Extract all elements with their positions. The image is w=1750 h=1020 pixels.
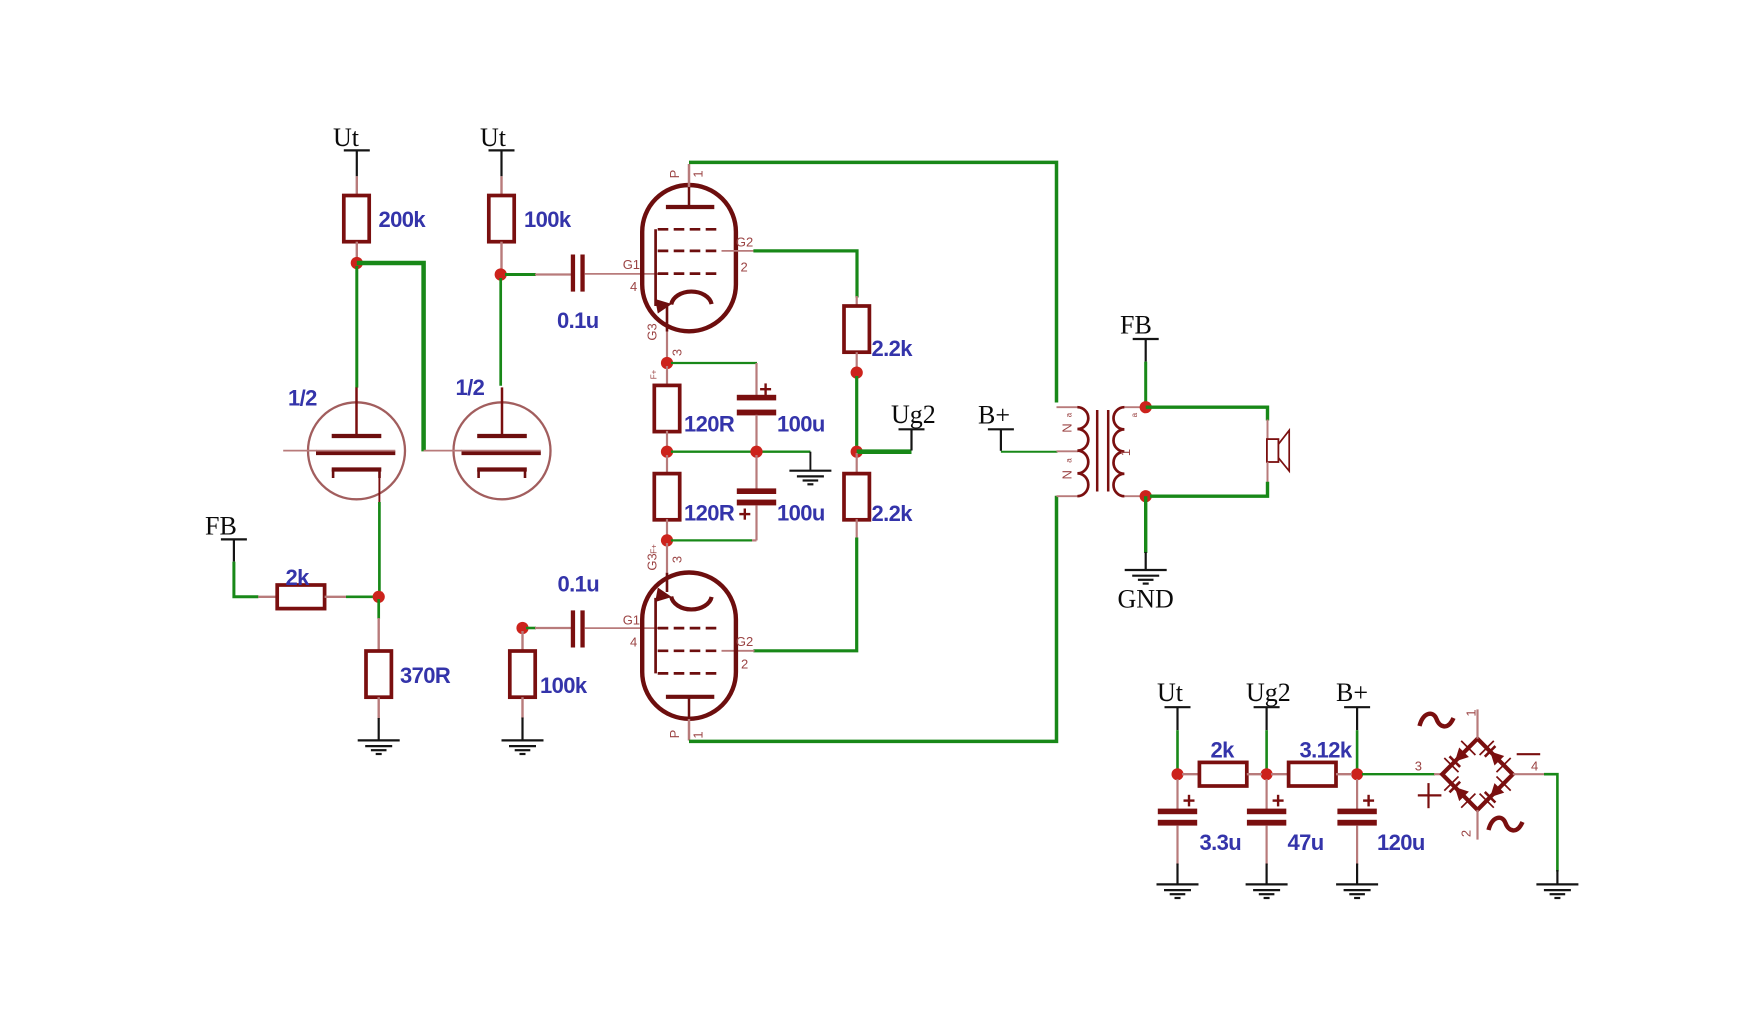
capacitor 3.3u (electrolytic): [1158, 795, 1197, 826]
triode V1a cathode: [332, 470, 382, 479]
pin lead R100k to node: [500, 242, 502, 271]
pin lead speaker top: [1267, 420, 1269, 440]
junction secondary bottom: [1140, 490, 1152, 502]
svg-text:47u: 47u: [1288, 830, 1324, 855]
svg-text:2: 2: [741, 260, 748, 275]
pin lead R370R to ground: [378, 697, 380, 719]
capacitor 47u (electrolytic): [1247, 795, 1286, 826]
bridge rectifier B1 diamond: [1442, 739, 1513, 810]
bridge minus mark: [1517, 753, 1541, 755]
pin lead into C5 (3.3u): [1176, 779, 1178, 810]
bridge diode D3 (top-right): [1480, 741, 1511, 772]
triode V1b grid lead: [424, 450, 462, 452]
svg-text:1: 1: [1118, 449, 1133, 456]
wire secondary bottom to ground: [1144, 496, 1147, 553]
svg-text:100u: 100u: [777, 412, 825, 437]
resistor 3.12k: [1289, 762, 1336, 786]
svg-text:370R: 370R: [400, 663, 451, 688]
pin lead R2k right: [1247, 773, 1262, 775]
wire B+ rail to bridge: [1362, 773, 1435, 775]
supply symbol B+ (middle): [978, 401, 1014, 451]
triode V1a envelope: [308, 402, 405, 499]
junction U2 cathode node: [661, 534, 673, 546]
wire speaker to secondary bottom: [1150, 482, 1268, 496]
supply symbol B+ (psu): [1336, 678, 1370, 730]
svg-text:P: P: [667, 170, 682, 179]
resistor 200k: [344, 196, 369, 242]
transformer T1 core: [1097, 410, 1108, 492]
wire B+ supply stem (psu): [1356, 730, 1359, 769]
triode V1b envelope: [454, 402, 551, 499]
bridge diode D4 (bottom-right): [1480, 777, 1511, 808]
triode V1a grid: [316, 451, 395, 455]
pentode U1 plate lead: [688, 164, 691, 208]
svg-text:GND: GND: [1118, 585, 1174, 614]
svg-text:G3: G3: [645, 323, 660, 340]
wire secondary top to speaker: [1146, 407, 1268, 420]
pin lead into R370R: [378, 618, 380, 652]
capacitor 100u (electrolytic): [737, 383, 776, 415]
pin lead R2k right: [325, 596, 347, 598]
pin lead bridge pin 3: [1434, 773, 1443, 775]
svg-text:G2: G2: [736, 235, 753, 250]
supply symbol FB (left): [205, 512, 247, 562]
supply symbol Ug2 (psu): [1246, 678, 1291, 730]
supply symbol FB (transformer): [1120, 311, 1159, 362]
pentode U1 suppressor strap: [654, 229, 657, 306]
svg-text:G3: G3: [645, 553, 660, 570]
wire Ug2 supply stem (psu): [1265, 730, 1268, 769]
resistor 370R: [366, 651, 391, 697]
pentode U2 suppressor strap: [654, 598, 657, 674]
supply symbol Ut (psu): [1157, 678, 1191, 730]
svg-text:F+: F+: [650, 544, 659, 554]
resistor 120R: [654, 474, 679, 520]
pin lead Ut to R200k: [356, 176, 358, 196]
svg-text:a: a: [1130, 412, 1139, 417]
supply symbol Ug2 (middle): [891, 400, 936, 451]
svg-text:Ut: Ut: [1157, 678, 1184, 707]
svg-text:4: 4: [630, 635, 637, 650]
pin lead 2.2k to node: [856, 352, 858, 369]
svg-text:4: 4: [630, 279, 637, 294]
pin lead lower R120R to node: [666, 519, 668, 537]
pin lead C2 top: [755, 363, 757, 396]
triode V1a cathode lead: [378, 478, 380, 503]
svg-text:B+: B+: [1336, 678, 1368, 707]
resistor 100k: [510, 651, 535, 697]
resistor 120R: [654, 385, 679, 431]
pin lead into C1: [535, 273, 571, 275]
junction Ug2 node: [851, 446, 863, 458]
svg-text:120R: 120R: [684, 501, 735, 526]
pin lead R100k to ground: [521, 697, 523, 718]
wire FB to R2k: [234, 562, 259, 597]
svg-text:a: a: [1065, 412, 1074, 417]
svg-text:Ut: Ut: [480, 123, 507, 152]
pin lead node to R3.12k left: [1271, 773, 1289, 775]
pin lead C2 bottom: [755, 415, 757, 449]
pentode U1 grid dashes: [658, 229, 722, 273]
junction B+ rail (psu): [1351, 768, 1363, 780]
svg-text:B+: B+: [978, 401, 1010, 430]
svg-text:a: a: [1065, 458, 1074, 463]
pin lead U2 screen G2: [722, 650, 755, 652]
pin lead into C7 (120u): [1356, 779, 1358, 810]
svg-text:N: N: [1060, 423, 1075, 432]
transformer T1 secondary winding: [1114, 407, 1142, 496]
triode V1a plate: [332, 387, 382, 436]
pin lead node to R100k (grid leak): [521, 631, 523, 653]
pentode U1 envelope: [642, 185, 736, 331]
triode V1a grid lead: [283, 450, 316, 452]
triode V1b plate: [477, 387, 527, 436]
pentode U2 envelope: [642, 573, 736, 719]
pin lead R120R to mid node: [666, 431, 668, 448]
pin lead into upper 2.2k: [856, 296, 858, 307]
pin lead C3 top: [755, 455, 757, 489]
pentode U2 cathode: [655, 588, 711, 610]
pin lead R2k left: [258, 596, 278, 598]
wire cathode node 2 to C3: [671, 539, 752, 541]
wire mid node to ground: [671, 451, 810, 453]
wire node to triode V1a plate: [355, 266, 358, 388]
svg-text:2: 2: [1459, 830, 1474, 837]
svg-text:G1: G1: [623, 613, 640, 628]
svg-text:2k: 2k: [1211, 738, 1236, 763]
svg-text:120u: 120u: [1377, 830, 1425, 855]
svg-text:Ug2: Ug2: [1246, 678, 1291, 707]
resistor 2k: [1199, 762, 1246, 786]
wire stub node to C4: [526, 627, 536, 630]
supply symbol Ut (second): [480, 123, 515, 176]
svg-text:1/2: 1/2: [288, 386, 317, 411]
svg-text:3: 3: [669, 349, 684, 356]
wire FB to secondary top: [1144, 362, 1147, 403]
capacitor C3 100u (lower, electrolytic): [737, 488, 776, 519]
svg-text:2.2k: 2.2k: [872, 501, 914, 526]
resistor 2.2k: [844, 474, 869, 520]
capacitor C4 0.1u (coupling, bottom): [571, 610, 585, 647]
svg-text:100u: 100u: [777, 501, 825, 526]
wire node to R370R: [377, 599, 380, 619]
pin lead U1 screen G2: [722, 250, 755, 252]
ground below R100k: [502, 718, 544, 755]
transformer T1 primary winding: [1057, 407, 1089, 496]
pin lead into R120R (lower): [666, 455, 668, 475]
pin lead C5 to ground: [1176, 825, 1178, 865]
svg-text:1/2: 1/2: [456, 375, 485, 400]
junction mid node at C2: [750, 446, 762, 458]
svg-text:Ut: Ut: [333, 123, 360, 152]
pentode U2 cathode/G3 pin lead: [666, 543, 668, 573]
wire Ut supply stem (psu): [1176, 730, 1179, 769]
wire cathode node to C2: [671, 362, 757, 364]
resistor 2k: [277, 585, 324, 609]
wire U1 G2 to R2.2k (upper): [753, 251, 857, 298]
bridge AC squiggle (top): [1420, 714, 1454, 727]
junction U1 cathode node: [661, 357, 673, 369]
svg-text:2: 2: [741, 657, 748, 672]
wire U1 plate to output transformer primary top: [689, 162, 1057, 402]
wire node to coupling cap C1: [505, 273, 536, 276]
wire B+ to transformer center tap: [1001, 451, 1058, 453]
pin lead bridge pin 4: [1513, 773, 1545, 775]
pin lead R200k to node: [356, 242, 358, 259]
svg-text:0.1u: 0.1u: [557, 308, 599, 333]
junction node at V1b plate / coupling cap: [495, 268, 507, 280]
pin lead speaker bottom: [1267, 462, 1269, 483]
svg-text:1: 1: [691, 170, 706, 177]
junction node at C4: [516, 622, 528, 634]
ground GND (transformer): [1125, 552, 1167, 584]
ground below C5: [1157, 864, 1199, 899]
bridge diode D1 (top-left): [1444, 741, 1475, 772]
svg-text:F+: F+: [650, 369, 659, 379]
pin lead C6 to ground: [1265, 825, 1267, 865]
speaker LS1: [1267, 430, 1289, 471]
svg-text:P: P: [667, 730, 682, 739]
svg-text:200k: 200k: [379, 207, 427, 232]
pin lead C3 bottom: [755, 505, 757, 540]
wire lower 2.2k to U2 screen G2: [753, 538, 856, 651]
ground bridge output: [1536, 870, 1578, 898]
svg-text:2.2k: 2.2k: [872, 336, 914, 361]
capacitor C1 0.1u (coupling, top): [571, 255, 585, 292]
svg-text:4: 4: [1531, 759, 1538, 774]
ground below C7: [1336, 864, 1378, 899]
wire bridge output to ground: [1544, 774, 1557, 871]
svg-text:100k: 100k: [540, 673, 588, 698]
pentode U2 grid dashes: [658, 628, 722, 673]
pentode U2 plate: [666, 695, 714, 699]
pin lead C4 to pentode U2 grid G1: [585, 627, 660, 629]
bridge pin 1 lead: [1476, 709, 1478, 738]
svg-text:1: 1: [691, 731, 706, 738]
svg-text:0.1u: 0.1u: [558, 572, 600, 597]
junction feedback node: [373, 591, 385, 603]
pin lead center tap: [1057, 450, 1079, 452]
svg-text:3.12k: 3.12k: [1300, 738, 1353, 763]
bridge AC squiggle (bottom): [1489, 818, 1523, 831]
pin lead into C6 (47u): [1265, 779, 1267, 810]
pin lead node to R2k (psu) left: [1182, 773, 1200, 775]
pin lead Ut to R100k: [500, 176, 502, 196]
junction mid node left: [661, 446, 673, 458]
svg-text:N: N: [1060, 470, 1075, 479]
pentode U1 cathode: [655, 292, 711, 314]
pin lead into lower 2.2k: [856, 453, 858, 475]
wire node to triode V1b grid: [357, 263, 424, 451]
pentode U2 plate lead: [688, 696, 691, 741]
junction node below 200k: [351, 257, 363, 269]
supply symbol Ut (left): [333, 123, 370, 176]
wire to Ug2 node: [855, 376, 858, 448]
wire node to V1b plate: [499, 278, 502, 386]
junction Ug2 rail (psu): [1261, 768, 1273, 780]
svg-text:1: 1: [1464, 709, 1479, 716]
svg-text:G1: G1: [623, 257, 640, 272]
svg-text:Ug2: Ug2: [891, 400, 936, 429]
junction secondary top: [1140, 401, 1152, 413]
pentode U1 plate: [666, 205, 714, 209]
svg-text:3: 3: [669, 556, 684, 563]
wire U2 plate to output transformer primary bottom: [689, 496, 1057, 742]
resistor 100k: [489, 196, 514, 242]
svg-text:3.3u: 3.3u: [1200, 830, 1242, 855]
wire V1a cathode to feedback node: [378, 502, 381, 593]
resistor 2.2k: [844, 306, 869, 352]
svg-text:G2: G2: [736, 634, 753, 649]
svg-text:FB: FB: [1120, 311, 1152, 340]
pin lead C1 to pentode U1 grid G1: [585, 273, 660, 275]
svg-text:120R: 120R: [684, 412, 735, 437]
bridge plus mark: [1418, 783, 1442, 808]
pin lead R3.12k right: [1336, 773, 1352, 775]
pin lead into C4: [535, 627, 571, 629]
svg-text:100k: 100k: [524, 207, 572, 232]
pin lead into R120R (upper): [666, 366, 668, 387]
svg-text:3: 3: [1415, 759, 1422, 774]
wire R2k to feedback node: [346, 595, 374, 598]
bridge diode D2 (bottom-left): [1444, 777, 1475, 808]
junction Ut rail (psu): [1172, 768, 1184, 780]
svg-text:FB: FB: [205, 512, 237, 541]
svg-text:2k: 2k: [286, 565, 311, 590]
pin lead lower 2.2k down: [856, 519, 858, 539]
bridge pin 2 lead: [1476, 810, 1478, 840]
ground cathode mid: [789, 452, 831, 485]
ground below R370R: [358, 718, 400, 754]
junction below upper 2.2k: [851, 367, 863, 379]
capacitor 120u (electrolytic): [1337, 795, 1376, 826]
triode V1b grid: [462, 451, 541, 455]
triode V1b cathode: [477, 470, 527, 479]
pin lead C7 to ground: [1356, 825, 1358, 865]
wire Ug2 node to supply pin: [857, 449, 912, 454]
pentode U1 cathode/G3 pin lead: [666, 303, 669, 332]
ground below C6: [1246, 864, 1288, 899]
